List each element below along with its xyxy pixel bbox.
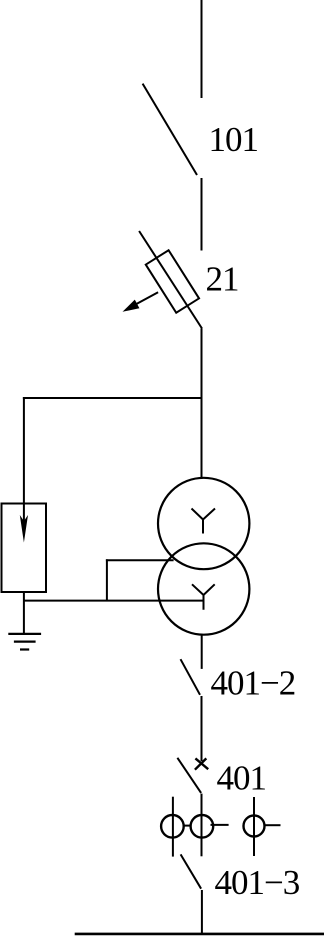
circuit breaker 401: contact cross bbox=[195, 758, 208, 769]
wire: 401-2 to breaker 401 bbox=[201, 696, 203, 761]
transformer T: LV winding circle bbox=[158, 543, 249, 634]
transformer T: HV wye symbol bbox=[192, 509, 216, 534]
arrester FZ: discharge arrow bbox=[20, 503, 28, 543]
current transformer CT2: circle bbox=[191, 815, 214, 838]
current transformer CT3: primary line bbox=[253, 797, 255, 856]
wire: branch to arrester (horizontal) bbox=[23, 397, 202, 399]
wire: branch to arrester (vertical drop) bbox=[23, 397, 25, 504]
wire: arrester to ground bbox=[23, 592, 25, 634]
current transformer CT1: circle bbox=[161, 815, 184, 838]
svg-text:401: 401 bbox=[217, 759, 267, 798]
svg-text:401−2: 401−2 bbox=[211, 663, 296, 702]
ground bbox=[8, 634, 41, 650]
svg-text:21: 21 bbox=[206, 260, 239, 299]
drop-out fuse 21: carrier line bbox=[139, 231, 202, 329]
wire: 101 to fuse 21 bbox=[201, 178, 203, 251]
wire: CT1-CT2 connector bbox=[184, 825, 191, 827]
transformer T: LV wye symbol bbox=[192, 584, 215, 610]
transformer T: HV winding circle bbox=[158, 478, 249, 569]
current transformer CT1: primary line bbox=[172, 797, 174, 857]
circuit breaker 401: blade bbox=[177, 758, 201, 793]
wire: breaker 401 through CT2 bbox=[201, 794, 203, 857]
svg-text:101: 101 bbox=[209, 120, 259, 159]
wire: neutral step (vertical) bbox=[106, 559, 108, 600]
drop-out fuse 21: drop-direction arrow bbox=[123, 292, 159, 312]
wire: incoming feeder (top) bbox=[201, 0, 203, 98]
disconnector 401-2 (blade) bbox=[181, 659, 201, 695]
disconnector 101 (blade) bbox=[143, 84, 197, 175]
drop-out fuse 21: fuse body (rotated rectangle) bbox=[146, 250, 199, 313]
wire: neutral line from arrester to transformer neutral bbox=[24, 600, 204, 602]
disconnector 401-3 (blade) bbox=[181, 854, 202, 888]
wire: fuse 21 to transformer bbox=[201, 329, 203, 479]
wire: 401-3 to busbar bbox=[201, 890, 203, 934]
wire: stub right of CT3 bbox=[265, 824, 281, 826]
arrester FZ: body rectangle bbox=[2, 504, 47, 593]
svg-text:401−3: 401−3 bbox=[215, 863, 300, 902]
wire: transformer to 401-2 bbox=[201, 635, 203, 669]
busbar bbox=[75, 933, 324, 936]
wire: neutral step (horizontal to LV winding) bbox=[106, 559, 174, 561]
current transformer CT3: circle bbox=[244, 816, 265, 837]
wire: stub right of CT2 bbox=[211, 824, 229, 826]
